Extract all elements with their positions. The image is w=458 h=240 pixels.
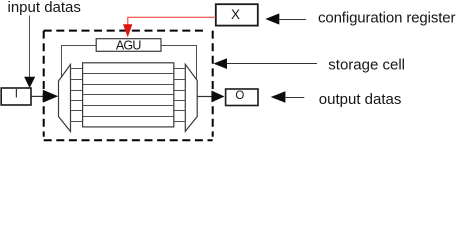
storage row lines [83, 74, 174, 117]
svg-text:configuration register: configuration register [318, 10, 456, 27]
arrowhead: configuration register annotation [265, 13, 279, 24]
wire: storage cell annotation shaft [226, 63, 317, 65]
svg-text:storage cell: storage cell [328, 57, 405, 74]
dashed border: storage cell boundary right [212, 31, 214, 137]
wire: red configuration line X to AGU [128, 17, 216, 25]
box X (configuration register) [216, 4, 258, 25]
dashed border: storage cell boundary bottom [44, 139, 213, 141]
wire: AGU right address line [161, 46, 197, 81]
arrowhead: red into AGU [123, 24, 132, 37]
arrowhead: storage cell annotation [213, 58, 227, 69]
rungs: left mux to storage rows [71, 69, 83, 122]
arrowhead: input into left mux [43, 90, 58, 103]
wire: AGU left address line [62, 46, 97, 78]
box O (output register) [226, 89, 258, 106]
dashed border: storage cell boundary top [44, 30, 206, 32]
dashed border: storage cell boundary left [43, 31, 45, 137]
wire: configuration register annotation shaft [279, 19, 307, 21]
storage register file rectangle [83, 63, 174, 127]
rungs: storage rows to right demux [174, 69, 186, 122]
arrowhead: output datas annotation [271, 91, 286, 103]
arrowhead: input datas into I box [24, 77, 35, 88]
box AGU (address generation unit) [96, 39, 161, 52]
right demux trapezoid [185, 64, 197, 131]
svg-text:input datas: input datas [8, 0, 81, 16]
wire: output datas annotation shaft [285, 97, 305, 99]
box I (input register) [1, 88, 31, 105]
arrowhead: output into O box [211, 91, 224, 103]
svg-text:I: I [15, 88, 18, 100]
wire: I box to storage arrow shaft [32, 95, 45, 97]
svg-text:output datas: output datas [319, 91, 402, 108]
left mux trapezoid [59, 65, 71, 132]
svg-text:X: X [231, 7, 240, 22]
wire: right demux to O box shaft [197, 96, 212, 98]
wire: input datas down line [29, 16, 31, 78]
svg-text:O: O [235, 90, 244, 102]
svg-text:AGU: AGU [116, 38, 142, 52]
